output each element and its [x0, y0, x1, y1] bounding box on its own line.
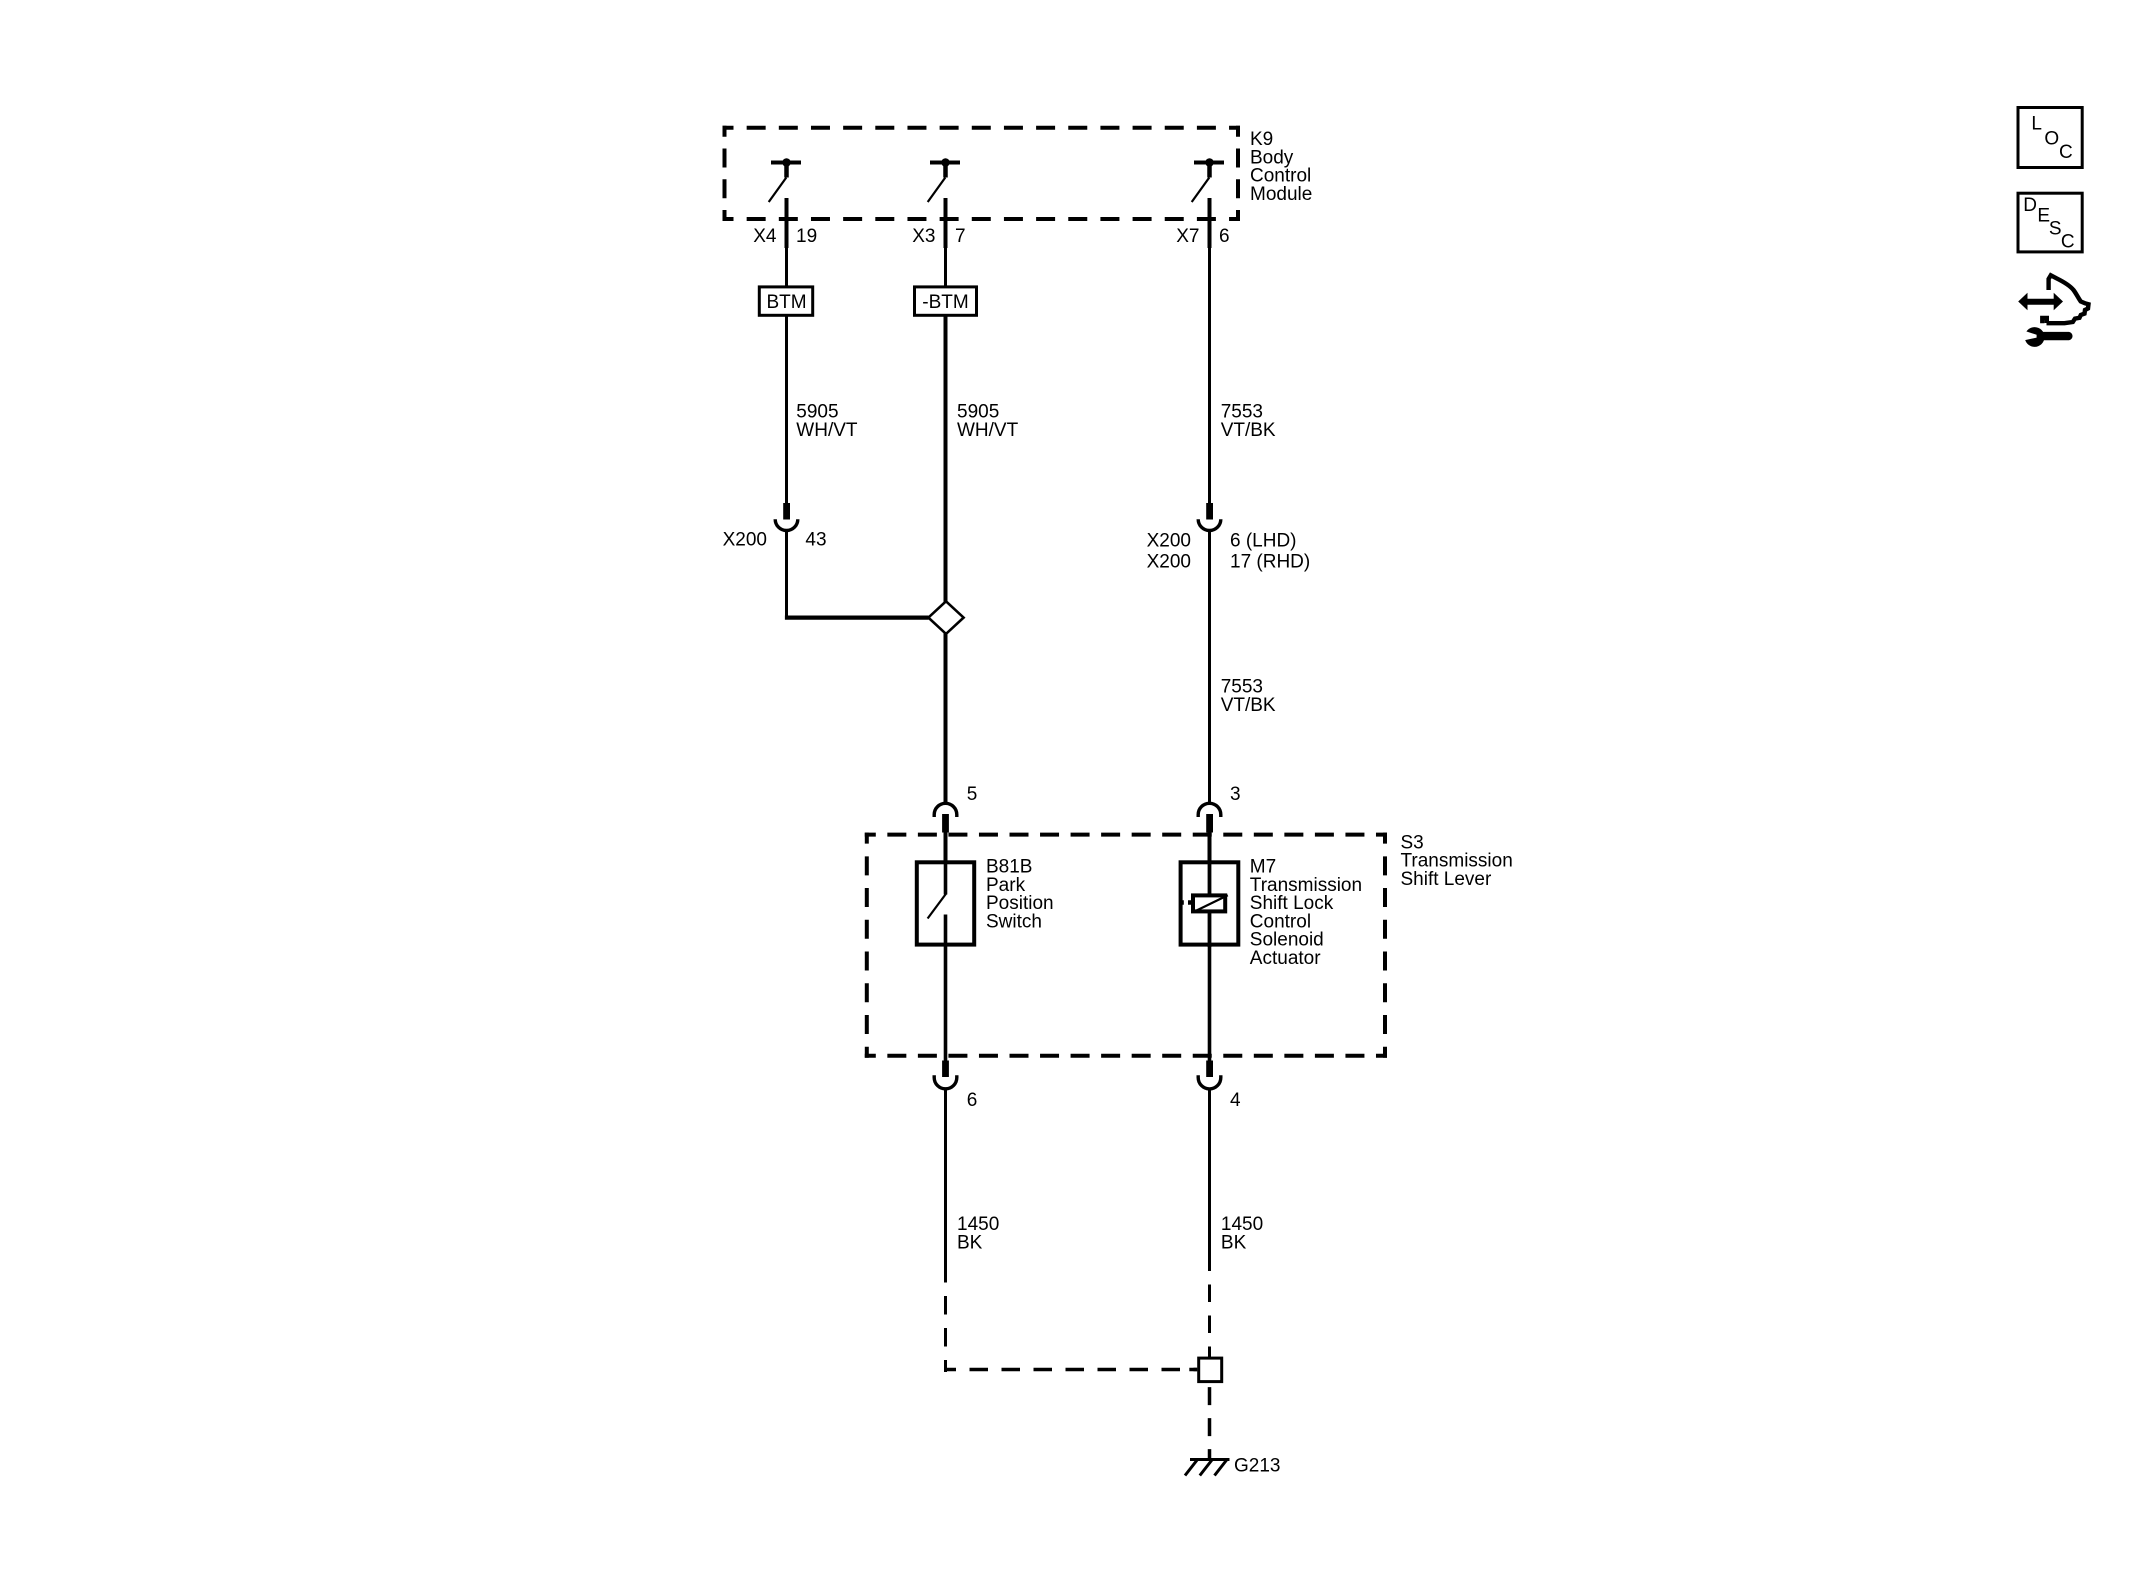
- svg-text:5: 5: [967, 784, 978, 805]
- svg-text:Module: Module: [1250, 184, 1312, 205]
- svg-text:-BTM: -BTM: [922, 292, 968, 313]
- svg-text:VT/BK: VT/BK: [1221, 420, 1276, 441]
- svg-text:L: L: [2031, 114, 2042, 135]
- svg-text:C: C: [2059, 142, 2073, 163]
- svg-text:6 (LHD): 6 (LHD): [1230, 531, 1297, 552]
- svg-text:6: 6: [1219, 226, 1230, 247]
- svg-text:Actuator: Actuator: [1250, 948, 1321, 969]
- svg-text:43: 43: [805, 530, 826, 551]
- svg-text:G213: G213: [1234, 1456, 1280, 1477]
- svg-text:D: D: [2023, 195, 2037, 216]
- svg-text:WH/VT: WH/VT: [957, 420, 1019, 441]
- svg-text:BTM: BTM: [766, 292, 806, 313]
- svg-text:X4: X4: [753, 226, 777, 247]
- svg-text:X200: X200: [1147, 531, 1191, 552]
- svg-text:3: 3: [1230, 784, 1241, 805]
- svg-text:6: 6: [967, 1090, 978, 1111]
- svg-text:17 (RHD): 17 (RHD): [1230, 552, 1310, 573]
- svg-text:C: C: [2061, 231, 2075, 252]
- svg-text:Shift Lever: Shift Lever: [1401, 869, 1492, 890]
- svg-text:4: 4: [1230, 1090, 1241, 1111]
- svg-text:X200: X200: [1147, 552, 1191, 573]
- svg-text:VT/BK: VT/BK: [1221, 695, 1276, 716]
- svg-text:Switch: Switch: [986, 911, 1042, 932]
- svg-text:X7: X7: [1176, 226, 1199, 247]
- svg-text:7: 7: [955, 226, 966, 247]
- svg-text:BK: BK: [957, 1232, 983, 1253]
- svg-text:19: 19: [796, 226, 817, 247]
- svg-text:BK: BK: [1221, 1232, 1247, 1253]
- svg-text:WH/VT: WH/VT: [796, 420, 858, 441]
- svg-text:S: S: [2049, 218, 2062, 239]
- svg-text:X3: X3: [912, 226, 935, 247]
- svg-text:X200: X200: [723, 530, 767, 551]
- svg-text:O: O: [2044, 129, 2059, 150]
